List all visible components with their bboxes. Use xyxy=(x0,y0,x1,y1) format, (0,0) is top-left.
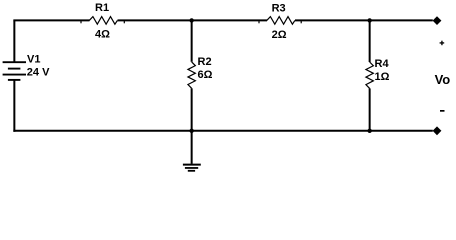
terminal: output - (diamond) xyxy=(433,126,442,135)
wire: top rail segment A xyxy=(13,19,89,21)
svg-text:R3: R3 xyxy=(272,3,286,15)
ground xyxy=(183,165,201,171)
terminal: output + (diamond) xyxy=(433,16,442,25)
label - xyxy=(440,110,445,112)
resistor R1 xyxy=(81,17,124,25)
svg-text:R1: R1 xyxy=(95,2,109,14)
svg-text:V1: V1 xyxy=(27,54,40,66)
resistor R4 xyxy=(366,62,373,88)
wire: left vertical upper (battery + to top rail) xyxy=(13,20,15,62)
svg-text:R4: R4 xyxy=(375,58,390,70)
voltage source V1 (battery) xyxy=(3,62,26,80)
wire: R2 branch upper xyxy=(191,20,193,61)
wire: R4 branch upper xyxy=(369,20,371,62)
wire: top rail segment B xyxy=(118,19,268,21)
node: junction R4 bottom xyxy=(367,129,371,133)
svg-text:6Ω: 6Ω xyxy=(198,69,213,81)
svg-text:1Ω: 1Ω xyxy=(375,71,390,83)
wire: left vertical lower (battery - to bottom rail) xyxy=(13,80,15,132)
node: junction R2 bottom / ground xyxy=(189,129,193,133)
wire: R4 branch lower xyxy=(369,88,371,130)
ground stem xyxy=(191,131,193,164)
wire: top rail segment C xyxy=(295,19,433,21)
resistor R3 xyxy=(259,17,301,25)
wire: bottom rail xyxy=(13,130,432,132)
svg-text:Vo: Vo xyxy=(435,72,451,87)
svg-text:2Ω: 2Ω xyxy=(272,29,287,41)
svg-text:4Ω: 4Ω xyxy=(95,29,110,41)
node: junction R2 top xyxy=(189,18,193,22)
label + xyxy=(440,41,445,46)
wire: R2 branch lower xyxy=(191,88,193,131)
svg-text:R2: R2 xyxy=(198,56,212,68)
resistor R2 xyxy=(188,62,195,88)
node: junction R4 top xyxy=(367,18,371,22)
svg-text:24 V: 24 V xyxy=(27,67,50,79)
